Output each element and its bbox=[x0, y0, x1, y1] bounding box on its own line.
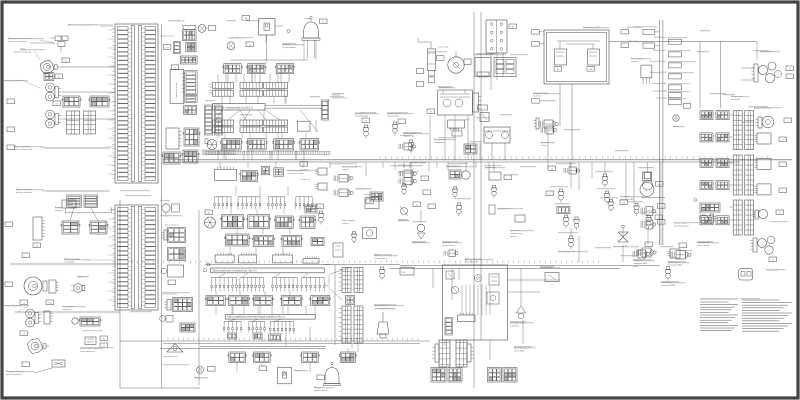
washer sensor bbox=[399, 172, 416, 185]
comb row9 d bbox=[303, 256, 319, 263]
panel fuse comb bbox=[458, 313, 476, 322]
label [1-] left of battery box bbox=[532, 30, 544, 47]
svg-text:Вентилятор: Вентилятор bbox=[160, 200, 170, 202]
wire from box bbox=[560, 42, 757, 161]
svg-text:8с: 8с bbox=[365, 119, 367, 122]
ABS box bbox=[400, 268, 414, 276]
battery tower 2 bbox=[456, 340, 474, 367]
sensor s2 bbox=[602, 174, 608, 188]
connector block X3 bbox=[62, 96, 81, 107]
heater fan motor bbox=[160, 200, 180, 217]
comb row9 b bbox=[239, 253, 257, 263]
hydraulic switch 2 bbox=[408, 140, 414, 154]
relay block row8 a bbox=[225, 234, 250, 246]
label column switch bbox=[374, 305, 394, 310]
svg-text:проблесковый: проблесковый bbox=[314, 389, 327, 392]
motor bus bbox=[390, 266, 660, 269]
pin connector X49 bbox=[486, 20, 507, 53]
plate lamp box bbox=[739, 269, 753, 280]
leader lines bbox=[18, 25, 120, 312]
battery tower 1 bbox=[432, 340, 450, 367]
socket vzvod bbox=[641, 65, 652, 84]
flare plug big bbox=[643, 173, 653, 191]
relay block row7 d bbox=[299, 216, 316, 228]
label fog lamp bbox=[14, 48, 32, 54]
pin connector drop wires bbox=[491, 53, 503, 90]
hydro signal bbox=[412, 224, 425, 244]
plug connector bbox=[464, 144, 477, 154]
MKD switch 1 bbox=[633, 248, 656, 268]
row box stubs to engine bus bbox=[216, 306, 315, 315]
label bbox=[208, 367, 216, 372]
svg-text:температуры: температуры bbox=[434, 142, 445, 144]
hanging fan f bbox=[248, 321, 265, 332]
wire vertical mid bbox=[334, 265, 336, 346]
label cab lower harness bbox=[16, 189, 110, 194]
sensor s9 bbox=[646, 215, 663, 229]
label front lamp bbox=[3, 304, 21, 307]
side comb bbox=[209, 84, 213, 93]
fog lamp HL1 bbox=[40, 60, 60, 74]
switch lamp b bbox=[641, 204, 665, 216]
panel lamp bbox=[475, 275, 482, 282]
label [9в] bbox=[33, 243, 41, 248]
label [49] bbox=[509, 24, 517, 29]
wires to bus bbox=[430, 115, 505, 160]
connector grid bbox=[184, 105, 197, 114]
svg-text:к спидометру: к спидометру bbox=[329, 274, 331, 286]
svg-text:Передача РК (стоян.): Передача РК (стоян.) bbox=[650, 60, 667, 63]
wire bbox=[265, 107, 322, 109]
fuse block row4 d bbox=[299, 139, 320, 150]
relay block row8 d bbox=[311, 237, 324, 245]
panel wires bbox=[462, 285, 490, 315]
bulb lamp 36 bbox=[640, 172, 665, 198]
dome lamp plafond bbox=[278, 367, 303, 384]
svg-text:заднего фонаря: заднего фонаря bbox=[697, 244, 710, 247]
ladder left stub wires bbox=[108, 30, 115, 300]
repeater lamp bbox=[52, 360, 65, 367]
svg-text:Выключатель авар.: Выключатель авар. bbox=[176, 81, 178, 98]
pneumo-electric sensor bbox=[365, 198, 379, 209]
reverse lamp bbox=[755, 116, 791, 128]
label bus terminals bbox=[326, 95, 348, 104]
hanging fan c bbox=[272, 278, 298, 292]
cell strip bbox=[174, 41, 181, 53]
svg-text:блокировки МКД: блокировки МКД bbox=[661, 284, 676, 287]
wire bbox=[62, 118, 115, 120]
door lamp bbox=[227, 37, 242, 50]
wire bbox=[120, 387, 200, 389]
svg-text:указателя поворота: указателя поворота bbox=[8, 41, 27, 43]
front lamp HL5 bbox=[26, 309, 42, 327]
label [4] bbox=[300, 162, 308, 167]
wire labels bbox=[300, 169, 311, 181]
headlamp HL4 bbox=[24, 277, 47, 295]
svg-text:устройства: устройства bbox=[510, 325, 519, 328]
EFU valve bbox=[540, 266, 559, 282]
electromagnet bbox=[533, 118, 558, 129]
svg-text:БОМ РК (реж.): БОМ РК (реж.) bbox=[654, 36, 667, 39]
riser wire bent bbox=[418, 38, 431, 48]
small part bbox=[253, 333, 262, 339]
legend notes column bbox=[742, 300, 792, 331]
label boxes bbox=[413, 202, 436, 209]
panel switch 1 bbox=[446, 271, 454, 279]
ABS cab unit bbox=[397, 164, 416, 196]
motor box bbox=[363, 228, 377, 239]
comb right bbox=[667, 249, 680, 258]
svg-text:Щиток приборов основной (см. Л: Щиток приборов основной (см. Лист 1) bbox=[213, 269, 257, 272]
panel comp bbox=[487, 292, 499, 304]
mass switch bbox=[541, 126, 557, 147]
sensor s4 bbox=[604, 191, 610, 205]
rear harness ladder b1 bbox=[745, 111, 754, 150]
small comb bbox=[315, 183, 327, 190]
washer motor M1 bbox=[72, 317, 101, 326]
hanging fan b bbox=[239, 278, 264, 292]
MKD switch 3 bbox=[661, 267, 676, 287]
label MKD harness bbox=[514, 348, 527, 353]
svg-text:блокировки МКД: блокировки МКД bbox=[668, 264, 683, 267]
filter box bbox=[478, 105, 488, 110]
label bbox=[416, 82, 424, 87]
svg-text:Щиток приборов дополнительный: Щиток приборов дополнительный левый(см.Л… bbox=[227, 316, 285, 319]
mini ladder X5b bbox=[84, 111, 96, 134]
relay block row10 e bbox=[310, 296, 331, 306]
diag drop wires bbox=[70, 207, 98, 221]
relay block row7 b bbox=[247, 215, 271, 229]
svg-text:кабины нижний: кабины нижний bbox=[16, 191, 32, 194]
MKD control panel frame bbox=[443, 265, 508, 340]
svg-text:Датчик уровня жидкости: Датчик уровня жидкости bbox=[80, 348, 103, 350]
temp sensor bbox=[449, 129, 462, 137]
switch row BOM stoyan bbox=[653, 49, 681, 57]
label brake switch bbox=[342, 166, 355, 172]
svg-text:уровня топлива: уровня топлива bbox=[442, 245, 455, 247]
wire bbox=[15, 311, 120, 313]
svg-text:гидроконтура: гидроконтура bbox=[387, 116, 399, 118]
relay block row12 c bbox=[301, 352, 320, 363]
rear harness ladder a2 bbox=[733, 155, 742, 195]
label side turn repeater bbox=[8, 37, 55, 43]
terminal block row2 c bbox=[264, 83, 288, 97]
label [10] bbox=[548, 166, 556, 171]
bus vertical right bbox=[660, 20, 663, 245]
svg-text:Стеклоочиститель: Стеклоочиститель bbox=[162, 294, 177, 296]
fog lamp HL6 bbox=[28, 339, 50, 354]
commutator box bbox=[356, 189, 431, 202]
connector pair X7 bbox=[61, 221, 108, 234]
heater switch bbox=[161, 225, 185, 243]
side lamp left bbox=[700, 214, 716, 223]
voltage regulator bbox=[475, 58, 491, 79]
label marker lamp bbox=[4, 79, 24, 82]
label bbox=[416, 69, 424, 74]
svg-text:автопоезда: автопоезда bbox=[731, 99, 740, 101]
svg-text:омывателя: омывателя bbox=[62, 309, 73, 311]
svg-text:Выключатель 1°: Выключатель 1° bbox=[400, 134, 413, 137]
searchlight lamp bbox=[163, 344, 183, 359]
connector pair r2 bbox=[700, 133, 729, 142]
label [1в] bbox=[53, 101, 61, 106]
panel ladder 1a bbox=[339, 267, 351, 292]
heater resistor bbox=[168, 248, 186, 261]
trailer socket X6 bbox=[33, 217, 45, 240]
flame plug comp bbox=[489, 205, 511, 214]
flasher relay 1 bbox=[754, 133, 786, 144]
svg-text:бачка омывателя: бачка омывателя bbox=[80, 350, 95, 353]
label rear lamp harness bbox=[697, 242, 710, 247]
hazard switch block bbox=[170, 69, 184, 103]
valve bowtie bbox=[613, 225, 628, 248]
label switch1 bbox=[387, 112, 401, 118]
battery block 1 bbox=[431, 368, 462, 383]
relay block row10 c bbox=[252, 296, 273, 306]
small comb bbox=[315, 168, 327, 175]
label frame harness bbox=[68, 25, 113, 27]
fuse block row1 c bbox=[275, 64, 295, 74]
MKD panel inner wires bbox=[445, 280, 560, 360]
terminal strip bbox=[205, 105, 213, 135]
label bbox=[786, 74, 794, 79]
relay block row10 d bbox=[281, 296, 303, 306]
row area vertical wires bbox=[218, 35, 316, 159]
rear harness ladder b2 bbox=[745, 155, 754, 195]
relay block row8 c bbox=[281, 235, 302, 246]
wire engine harness bbox=[10, 263, 118, 265]
sensor s3 bbox=[558, 189, 564, 203]
fan motor M2 bbox=[205, 139, 217, 150]
wire riser bbox=[161, 24, 163, 388]
switch row blokirovka MKD bbox=[652, 83, 681, 90]
connector bbox=[346, 296, 355, 305]
flasher relay 2 bbox=[754, 158, 786, 169]
svg-text:монтажных шин: монтажных шин bbox=[332, 98, 348, 100]
label bbox=[317, 375, 325, 380]
socket portable lamp bbox=[62, 200, 76, 208]
heater block bbox=[494, 58, 516, 77]
label [14] bbox=[242, 16, 250, 21]
wire bbox=[230, 26, 308, 60]
wiper connector 2 bbox=[180, 323, 195, 332]
wire verticals mid bbox=[216, 60, 358, 372]
lower bus bbox=[120, 341, 430, 344]
fuse block row1 a bbox=[223, 64, 243, 74]
wire bbox=[62, 91, 115, 93]
bar block AK commutation bbox=[213, 104, 266, 110]
sensor s7 arrow bbox=[608, 199, 627, 212]
legend abbreviation column bbox=[700, 299, 738, 331]
riser connector bbox=[321, 100, 329, 120]
label washer tank sensor bbox=[80, 348, 103, 353]
hanging fan a bbox=[211, 278, 237, 292]
label [8а] bbox=[100, 336, 108, 341]
svg-text:Выкл. аварийн.: Выкл. аварийн. bbox=[342, 219, 356, 222]
cab plafond lamp bbox=[259, 19, 275, 35]
label engine harness bbox=[64, 259, 80, 264]
label [2в] bbox=[62, 58, 70, 63]
motor unit bbox=[446, 166, 470, 199]
label MKD panel bbox=[465, 259, 481, 264]
label beacon bbox=[283, 44, 297, 49]
beacon top bbox=[302, 17, 320, 58]
hanging fan g bbox=[269, 321, 294, 333]
wire number ticks engine bus bbox=[132, 260, 598, 263]
svg-text:Фара-прожектор: Фара-прожектор bbox=[163, 355, 177, 358]
svg-text:Блокировка МОД РК: Блокировка МОД РК bbox=[650, 72, 668, 74]
label turn repeater bbox=[6, 368, 52, 376]
rear harness ladder a1 bbox=[733, 111, 742, 150]
relay block row7 a bbox=[221, 215, 245, 229]
connector stack bbox=[183, 26, 197, 52]
sensor s5 bbox=[563, 215, 569, 229]
label sensor1 bbox=[355, 112, 368, 118]
flare plug bbox=[398, 206, 408, 222]
svg-text:Датчик темп.: Датчик темп. bbox=[449, 129, 460, 131]
switch row blokirovka MOD bbox=[650, 72, 682, 79]
svg-text:Выкл. отопителя: Выкл. отопителя bbox=[165, 225, 179, 227]
svg-text:тормоза: тормоза bbox=[342, 223, 349, 225]
label [10в] bbox=[46, 300, 54, 305]
sensor s6 bbox=[574, 217, 580, 231]
relay inside 1 bbox=[554, 49, 567, 71]
PZHD box bbox=[557, 206, 570, 214]
svg-text:кабины наружный: кабины наружный bbox=[14, 148, 33, 151]
connector comb bbox=[44, 311, 53, 324]
speed sensor unit bbox=[485, 167, 512, 198]
flasher relay 3 bbox=[754, 184, 786, 195]
label stop engine bbox=[532, 93, 549, 104]
label autotrain sign lamp bbox=[731, 95, 742, 101]
switch row blokirovka2 bbox=[652, 91, 681, 98]
pneumo sensor 43 bbox=[316, 204, 324, 225]
junction box bbox=[298, 121, 311, 131]
label [А4] bbox=[163, 45, 171, 50]
label TsVOA auto bbox=[621, 40, 660, 48]
connector grid dark bbox=[180, 56, 197, 64]
svg-text:противотуманный: противотуманный bbox=[674, 224, 689, 227]
hanging comb row6 b bbox=[237, 197, 261, 209]
svg-text:Передача РК: Передача РК bbox=[656, 98, 667, 100]
svg-text:прицепа: прицепа bbox=[55, 210, 63, 212]
svg-text:Агрегат 049: Агрегат 049 bbox=[438, 46, 448, 49]
svg-text:двигателя: двигателя bbox=[533, 96, 541, 98]
battery switch box frame bbox=[544, 26, 609, 84]
small connector bbox=[305, 205, 317, 213]
diag fan under bar1 bbox=[216, 110, 266, 120]
svg-text:6з: 6з bbox=[779, 211, 781, 214]
fuse block row4 c bbox=[273, 139, 295, 150]
label [18] bbox=[427, 109, 435, 114]
air filter sensor bbox=[510, 215, 525, 238]
relay small bbox=[274, 168, 284, 176]
ignition sensor comb bbox=[448, 120, 465, 130]
MKD switch 2 bbox=[668, 251, 691, 267]
rear lamp cluster top bbox=[751, 62, 781, 83]
rear cluster 2 bbox=[750, 236, 774, 254]
fuel unit column bbox=[428, 49, 436, 83]
wire bbox=[60, 66, 115, 68]
window lifter switch bbox=[374, 255, 388, 281]
svg-text:освещения салона: освещения салона bbox=[288, 173, 304, 175]
label cab outer harness bbox=[14, 146, 110, 151]
label [4в] bbox=[55, 74, 63, 79]
relay inside 2 bbox=[587, 49, 600, 71]
brake switch pair bbox=[334, 175, 353, 197]
svg-text:3с: 3с bbox=[424, 177, 426, 180]
wire bbox=[351, 343, 353, 348]
svg-text:стеклоподъемн.: стеклоподъемн. bbox=[374, 258, 388, 260]
small part bbox=[269, 334, 281, 341]
hanging comb row6 c bbox=[268, 197, 286, 209]
wires far right bbox=[700, 42, 754, 221]
svg-text:массы: массы bbox=[541, 145, 547, 147]
relay block K5 bbox=[182, 150, 199, 163]
label [9а] bbox=[786, 66, 794, 71]
switch cyl bbox=[399, 143, 416, 150]
pneumatic sensor 1 bbox=[363, 125, 369, 139]
hanging fan e bbox=[223, 321, 242, 332]
fuse block row4 a bbox=[220, 139, 242, 150]
relay block row12 a bbox=[228, 352, 247, 363]
hanging fan d bbox=[301, 278, 325, 292]
label [2б] bbox=[769, 257, 777, 262]
svg-text:Эл.двиг. отопителя: Эл.двиг. отопителя bbox=[160, 35, 175, 37]
sensor s11 bbox=[633, 250, 650, 258]
svg-text:Клеммы: Клеммы bbox=[332, 95, 340, 97]
connector comb bbox=[166, 128, 182, 149]
label [25] bbox=[546, 191, 554, 196]
connector cells 2 bbox=[185, 95, 197, 102]
speedo connector bbox=[333, 243, 343, 257]
harness ladder cab front bbox=[112, 24, 158, 183]
socket bbox=[194, 367, 203, 379]
label temp signal sensor bbox=[434, 139, 446, 144]
diag fan under bar4 bbox=[228, 319, 282, 321]
relay small bbox=[261, 167, 269, 175]
wires vertical field bbox=[548, 130, 661, 262]
switch row BOM rezh bbox=[654, 36, 681, 44]
sensor drop wires bbox=[366, 162, 592, 306]
svg-text:блокировки МКД: блокировки МКД bbox=[620, 198, 635, 201]
marker lamp HL3 bbox=[46, 110, 62, 128]
small part bbox=[228, 333, 237, 339]
heater fan M3 bbox=[205, 210, 216, 228]
label [46] bbox=[679, 243, 687, 248]
label [36] bbox=[645, 242, 653, 247]
parking brake switch bbox=[342, 219, 357, 244]
main bus bbox=[163, 160, 792, 162]
label [2и] bbox=[320, 19, 328, 24]
label switch2 bbox=[403, 132, 417, 138]
labels switch blokirovka bbox=[620, 196, 635, 201]
diag wires bbox=[228, 64, 352, 300]
marker lamp HL2 bbox=[46, 83, 62, 101]
bus wire bbox=[160, 347, 326, 349]
connector column cells bbox=[182, 71, 198, 95]
svg-text:Блок А.К.+коммутация (см.Лист1: Блок А.К.+коммутация (см.Лист1) bbox=[215, 107, 253, 110]
relay block row10 b bbox=[228, 296, 250, 306]
label [3с] bbox=[421, 176, 429, 181]
terminal strip bbox=[215, 105, 223, 135]
svg-text:АВС: АВС bbox=[401, 271, 406, 274]
wire number ticks lower bus bbox=[168, 338, 418, 341]
gauge dial bbox=[448, 51, 471, 73]
relay block row12 d bbox=[339, 352, 356, 363]
svg-text:ЦВОА РК (авт.): ЦВОА РК (авт.) bbox=[629, 40, 642, 43]
switch lamp c bbox=[641, 220, 665, 230]
